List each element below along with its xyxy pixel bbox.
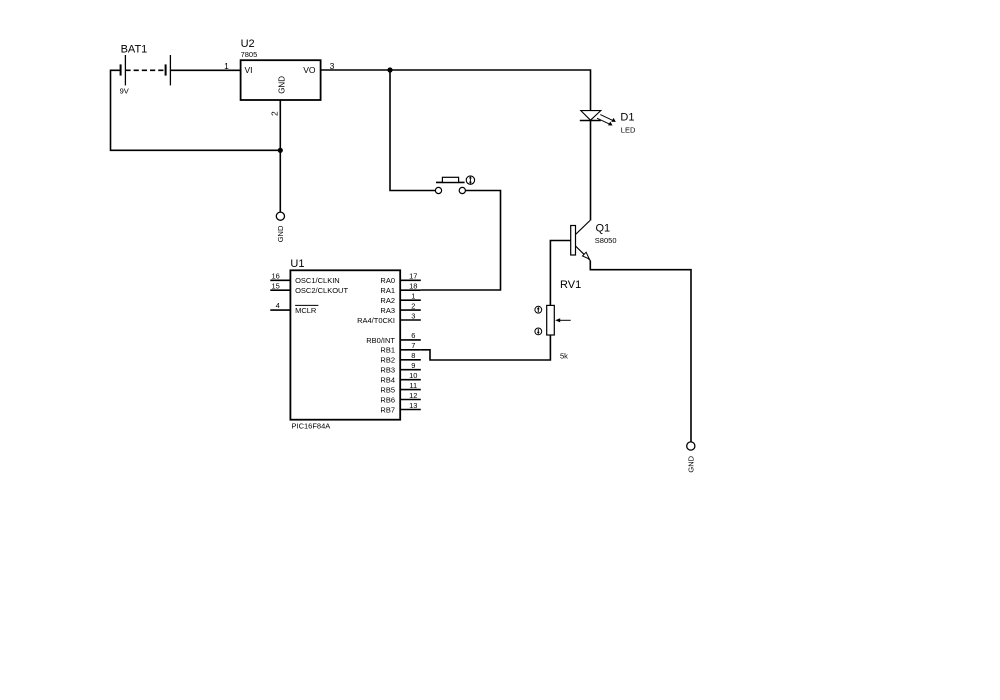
svg-text:VO: VO [303, 65, 316, 75]
svg-text:Q1: Q1 [596, 223, 611, 235]
pin 1 RA2 [380, 292, 420, 306]
wire LED cathode to Q1 collector [590, 121, 592, 221]
pin 2 label [269, 111, 279, 116]
svg-text:U2: U2 [241, 38, 255, 50]
svg-text:RB3: RB3 [380, 366, 395, 375]
svg-text:11: 11 [409, 381, 417, 390]
svg-text:6: 6 [411, 331, 415, 340]
pin 16 OSC1/CLKIN [270, 271, 339, 285]
svg-text:RB1: RB1 [380, 346, 395, 355]
svg-text:RA0: RA0 [380, 276, 395, 285]
potentiometer RV1 [547, 279, 582, 361]
button actuator symbol [466, 176, 474, 184]
svg-text:18: 18 [409, 282, 417, 291]
svg-text:RA3: RA3 [380, 306, 395, 315]
svg-text:PIC16F84A: PIC16F84A [292, 421, 331, 430]
svg-text:13: 13 [409, 401, 417, 410]
svg-text:MCLR: MCLR [295, 306, 317, 315]
wire Q1 emitter to right ground [590, 261, 691, 443]
svg-text:D1: D1 [620, 112, 634, 124]
wire U2 GND to ground terminal [279, 100, 281, 212]
push button [435, 177, 465, 193]
wire battery positive to U2 VI [170, 69, 240, 71]
wire U2 VO to junction [321, 69, 390, 71]
pin 17 RA0 [380, 272, 420, 286]
svg-text:RB7: RB7 [380, 405, 395, 414]
pin 13 RB7 [380, 401, 420, 415]
svg-text:GND: GND [687, 455, 696, 472]
svg-text:5k: 5k [560, 352, 568, 361]
pin 9 RB3 [380, 361, 420, 375]
svg-text:RA4/T0CKI: RA4/T0CKI [357, 316, 395, 325]
pin 3 label [330, 61, 335, 71]
battery BAT1 [120, 43, 171, 95]
svg-text:RA2: RA2 [380, 296, 395, 305]
svg-text:7: 7 [411, 341, 415, 350]
svg-text:OSC2/CLKOUT: OSC2/CLKOUT [295, 286, 348, 295]
svg-text:LED: LED [621, 125, 636, 134]
svg-text:12: 12 [409, 391, 417, 400]
svg-text:10: 10 [409, 371, 417, 380]
ground terminal right [687, 442, 696, 473]
svg-text:7805: 7805 [241, 50, 258, 59]
ground terminal left [276, 212, 285, 242]
svg-text:2: 2 [411, 301, 415, 310]
pin 12 RB6 [380, 391, 420, 405]
LED D1 [580, 111, 636, 135]
pin 4 MCLR [270, 301, 318, 315]
pin 8 RB2 [380, 351, 420, 365]
svg-text:1: 1 [224, 61, 229, 71]
pin 11 RB5 [380, 381, 420, 395]
svg-text:4: 4 [276, 301, 280, 310]
microcontroller U1 [290, 258, 400, 431]
junction node [387, 67, 392, 72]
svg-text:17: 17 [409, 272, 417, 281]
svg-text:8: 8 [411, 351, 415, 360]
RV1 increment indicator [535, 306, 542, 313]
wire battery negative to ground rail [111, 70, 281, 150]
svg-text:15: 15 [271, 281, 279, 290]
wire button to RA1 [421, 191, 501, 291]
svg-text:16: 16 [271, 271, 279, 280]
junction node ground rail [278, 148, 283, 153]
svg-text:VI: VI [245, 65, 253, 75]
pin 6 RB0/INT [366, 331, 421, 345]
svg-text:BAT1: BAT1 [121, 43, 148, 55]
svg-text:RB0/INT: RB0/INT [366, 336, 395, 345]
pin 15 OSC2/CLKOUT [270, 281, 348, 295]
wire junction to LED anode [390, 70, 591, 111]
svg-text:2: 2 [269, 111, 279, 116]
pin 7 RB1 [380, 341, 420, 355]
regulator U2 [241, 38, 321, 100]
wire junction down to push button [390, 70, 435, 191]
svg-text:GND: GND [277, 76, 286, 94]
svg-text:3: 3 [411, 311, 415, 320]
svg-text:S8050: S8050 [595, 236, 617, 245]
svg-text:1: 1 [411, 292, 415, 301]
svg-text:9V: 9V [120, 87, 129, 96]
svg-text:RB6: RB6 [380, 395, 395, 404]
transistor Q1 [571, 221, 617, 261]
pin 2 RA3 [380, 301, 420, 315]
svg-text:RA1: RA1 [380, 286, 395, 295]
pin 3 RA4/T0CKI [357, 311, 421, 325]
svg-text:RB5: RB5 [380, 386, 395, 395]
svg-text:RB4: RB4 [380, 376, 395, 385]
svg-text:OSC1/CLKIN: OSC1/CLKIN [295, 276, 340, 285]
svg-text:RV1: RV1 [560, 279, 581, 291]
pin 18 RA1 [380, 282, 420, 296]
svg-text:GND: GND [276, 225, 285, 242]
pin 1 label [224, 61, 229, 71]
wire Q1 base to RV1 wiper column [550, 241, 570, 306]
pin 10 RB4 [380, 371, 420, 385]
wire RV1 bottom to RB1 [421, 335, 551, 360]
RV1 decrement indicator [535, 328, 542, 335]
svg-text:U1: U1 [290, 258, 304, 270]
svg-text:9: 9 [411, 361, 415, 370]
svg-text:RB2: RB2 [380, 356, 395, 365]
